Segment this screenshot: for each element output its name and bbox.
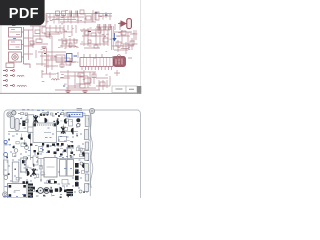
inductor L1 — [17, 75, 24, 76]
capacitor C4 — [21, 158, 26, 172]
net label (blue) — [44, 13, 108, 56]
diode/smd parts — [21, 114, 74, 195]
capacitor C2 — [15, 119, 19, 131]
silkscreen divider lines — [8, 113, 90, 196]
misc outline parts — [4, 120, 73, 192]
capacitor C6 — [14, 149, 18, 153]
label frame — [67, 112, 83, 117]
title block — [112, 86, 141, 93]
pad ring P3b — [79, 190, 82, 193]
capacitor C8 — [76, 118, 80, 122]
transistor Q9 — [50, 128, 53, 133]
bus (blue) — [67, 54, 73, 62]
texture parts — [6, 113, 85, 199]
silkscreen labels — [4, 110, 90, 197]
svg-text:PDF: PDF — [9, 6, 39, 22]
trimmer VR2 — [61, 126, 65, 134]
terminal TP1 — [38, 188, 44, 194]
transistor Q7 — [27, 171, 30, 176]
transistor Q8 — [60, 187, 63, 192]
connector bank J2-J9 — [3, 71, 13, 86]
transistor Q1 — [45, 118, 48, 123]
fan M1 — [9, 52, 22, 62]
wire — [22, 27, 28, 64]
mounting hole H3 — [3, 192, 8, 197]
transformer T1 — [9, 26, 22, 38]
via ring V1 — [4, 140, 7, 143]
IC U3 — [60, 160, 67, 177]
transistor Q3 — [71, 128, 74, 133]
pad ring P3a — [80, 162, 83, 165]
trimmer VR1 — [34, 115, 39, 123]
connector P1 — [118, 19, 131, 29]
connector P2 — [114, 57, 126, 67]
capacitor C7 — [25, 146, 29, 150]
relay K1 — [28, 115, 34, 133]
capacitor C5 — [4, 176, 8, 180]
connector J10 — [113, 55, 121, 62]
trimmer VR3 — [32, 168, 36, 175]
capacitor C3 — [12, 162, 18, 182]
transistor Q6 — [82, 163, 85, 168]
header P4 — [28, 184, 33, 199]
transistor Q2 — [57, 120, 60, 125]
fuse F1 — [12, 111, 16, 115]
transistor Q5 — [82, 151, 85, 156]
transistor Q4 — [28, 134, 31, 139]
capacitor C-row — [70, 11, 111, 31]
capacitor C1 — [10, 117, 14, 129]
bridge rectifier BR1 — [67, 189, 74, 196]
junction box — [6, 63, 14, 68]
arrow (blue) — [112, 33, 116, 41]
edge connector dashes — [77, 109, 83, 111]
resistor/capacitor bank — [30, 10, 134, 88]
diode D1 — [22, 121, 25, 127]
ground — [42, 47, 88, 93]
bracket — [25, 64, 30, 68]
transistor Q10 — [64, 118, 67, 123]
header P3 — [75, 163, 79, 187]
transformer T3 — [8, 184, 28, 199]
pcb board outline — [4, 110, 141, 210]
inductor L3 — [52, 79, 60, 80]
schematic page — [0, 0, 141, 93]
top band dots — [40, 114, 60, 116]
mounting hole H2 — [89, 108, 94, 113]
top band parts — [21, 113, 68, 116]
capacitor C9 — [77, 124, 80, 127]
wire — [24, 10, 138, 91]
net dot (blue) — [63, 85, 65, 87]
mounting hole H1 — [7, 112, 12, 117]
PDF badge — [0, 0, 45, 25]
transformer T2 — [9, 39, 22, 50]
via ring V2 — [4, 153, 8, 157]
terminal TP2 — [44, 188, 50, 194]
inductor L2 — [17, 85, 27, 86]
IC U1 — [80, 54, 113, 70]
designator specks — [40, 10, 134, 84]
hookup wires — [88, 113, 93, 188]
IC U4 — [67, 160, 74, 177]
IC U2 — [44, 158, 57, 178]
diode D2 — [12, 146, 14, 148]
heatsink strip — [84, 116, 89, 192]
module M2 — [33, 123, 57, 143]
